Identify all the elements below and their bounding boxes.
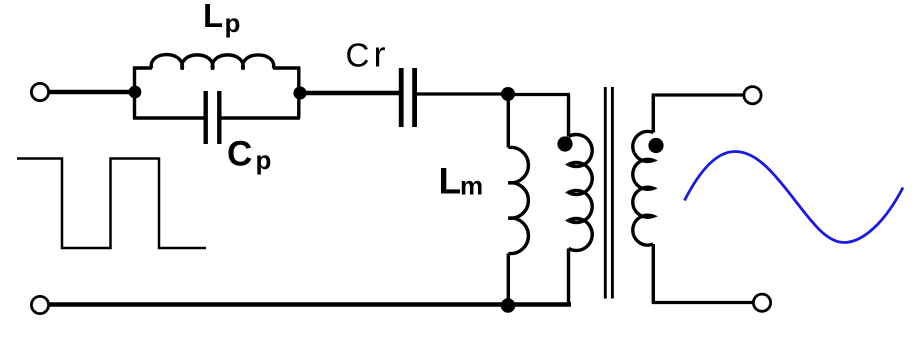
- wire node C to primary: [508, 93, 570, 96]
- wire Lm bottom lead: [507, 253, 510, 306]
- svg-text:L: L: [439, 161, 462, 202]
- label Lp: [203, 0, 240, 38]
- wire bottom rail: [49, 302, 572, 307]
- wire node B to Cr: [300, 91, 399, 96]
- node A junction: [129, 86, 142, 99]
- wire Cr to node C: [417, 92, 508, 95]
- svg-text:C: C: [346, 37, 370, 74]
- capacitor Cp: [206, 91, 220, 144]
- wire Lp block top-right horizontal: [273, 66, 300, 69]
- svg-text:p: p: [225, 8, 241, 38]
- label Cr: [346, 34, 386, 75]
- wire Lp block top-left horizontal: [133, 66, 152, 69]
- polarity dot primary: [557, 136, 572, 151]
- svg-text:L: L: [203, 0, 223, 34]
- svg-text:p: p: [256, 145, 272, 175]
- transformer core: [605, 87, 612, 299]
- terminal input+: [31, 83, 48, 100]
- svg-text:r: r: [374, 34, 386, 75]
- transformer secondary T1 winding: [633, 131, 654, 245]
- node B junction: [293, 86, 306, 99]
- wire Lp block right vertical: [297, 67, 300, 119]
- svg-text:C: C: [227, 135, 252, 174]
- wire Cp right lead: [222, 116, 301, 119]
- node D junction: [501, 298, 516, 313]
- wire Cp left lead: [133, 116, 204, 119]
- wire Lm top lead: [507, 94, 510, 148]
- terminal output+: [744, 87, 761, 104]
- transformer primary T1 top corner: [567, 95, 570, 137]
- transformer primary T1 winding: [569, 134, 593, 250]
- capacitor Cr: [401, 68, 414, 127]
- wire Lp block left vertical: [133, 67, 136, 119]
- transformer secondary T1 top lead: [652, 95, 655, 133]
- inductor Lm: [508, 147, 528, 253]
- transformer primary T1 bottom lead: [567, 249, 570, 305]
- wire input+ to node A: [49, 90, 136, 95]
- terminal input-: [31, 296, 48, 313]
- label Cp: [227, 135, 271, 176]
- label Lm: [439, 161, 484, 202]
- transformer secondary T1 bottom lead: [652, 244, 655, 302]
- sine wave output symbol: [685, 152, 904, 243]
- square wave input symbol: [17, 159, 206, 249]
- node C junction: [501, 87, 515, 101]
- svg-text:m: m: [460, 171, 483, 201]
- terminal output-: [753, 294, 770, 311]
- polarity dot secondary: [648, 138, 663, 153]
- wire secondary bottom to output-: [652, 301, 753, 304]
- wire secondary top to output+: [652, 93, 744, 96]
- inductor Lp: [151, 55, 273, 70]
